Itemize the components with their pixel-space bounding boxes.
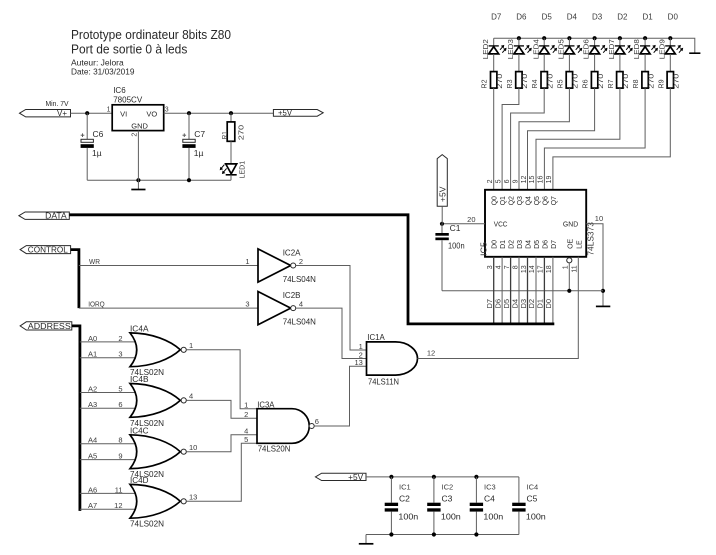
svg-text:74LS373: 74LS373 <box>586 222 596 256</box>
svg-text:R1: R1 <box>220 131 229 139</box>
svg-text:IC1: IC1 <box>399 483 411 492</box>
svg-text:1: 1 <box>107 106 111 113</box>
svg-text:D0: D0 <box>668 13 679 22</box>
svg-text:Prototype ordinateur 8bits Z80: Prototype ordinateur 8bits Z80 <box>71 27 231 42</box>
svg-text:VI: VI <box>120 110 127 119</box>
resistor R5 270 <box>555 72 579 89</box>
svg-text:11: 11 <box>572 265 579 272</box>
svg-text:100n: 100n <box>448 241 465 251</box>
svg-text:D7: D7 <box>551 240 558 249</box>
capacitor C1 100n <box>435 223 464 291</box>
junction C7 bottom <box>187 178 191 182</box>
svg-text:6: 6 <box>504 179 511 183</box>
svg-text:270: 270 <box>236 125 245 141</box>
wire A1 <box>80 357 137 359</box>
svg-text:5: 5 <box>495 179 502 183</box>
resistor R7 270 <box>606 72 630 89</box>
wire R4 to latch pin <box>511 88 545 190</box>
svg-text:A1: A1 <box>88 350 97 359</box>
svg-text:C6: C6 <box>93 129 104 139</box>
svg-text:1: 1 <box>244 400 248 409</box>
supply flag V+ with Min. 7V label <box>20 99 71 118</box>
svg-text:LED2: LED2 <box>483 39 490 59</box>
junction ground rail <box>432 532 436 536</box>
wire latch D5 pin to data bus <box>535 257 537 324</box>
svg-text:R6: R6 <box>581 80 590 89</box>
svg-text:74LS11N: 74LS11N <box>368 376 399 386</box>
svg-text:12: 12 <box>521 176 528 184</box>
latch IC5 74LS373 <box>478 190 595 257</box>
svg-text:D6: D6 <box>516 13 527 22</box>
svg-text:6: 6 <box>315 417 319 426</box>
pin numbers IC4D <box>114 485 197 510</box>
wire IC4A out to IC3A <box>186 350 257 409</box>
svg-text:19: 19 <box>546 176 553 184</box>
resistor R8 270 <box>631 72 655 89</box>
capacitor C3 100n (IC2) <box>427 477 461 535</box>
svg-text:IC4: IC4 <box>527 483 539 492</box>
svg-text:OE: OE <box>567 238 574 248</box>
svg-text:LED8: LED8 <box>634 39 641 59</box>
svg-text:C5: C5 <box>527 493 538 503</box>
svg-text:1: 1 <box>563 265 570 269</box>
NAND gate IC3A 74LS20N <box>257 399 314 453</box>
wire IC4C out to IC3A <box>186 435 257 452</box>
svg-text:9: 9 <box>118 452 122 461</box>
junction ground rail <box>474 532 478 536</box>
svg-text:100n: 100n <box>483 511 503 521</box>
wire 7805 GND pin <box>137 131 139 181</box>
LED8 <box>634 38 658 71</box>
svg-text:LE: LE <box>576 240 583 249</box>
LED7 <box>609 38 633 71</box>
wire +5V rail (decoupling) <box>366 476 519 478</box>
svg-text:2: 2 <box>487 179 494 183</box>
svg-text:9: 9 <box>512 179 519 183</box>
bus flag CONTROL <box>20 246 71 255</box>
svg-text:7: 7 <box>504 265 511 269</box>
wire latch D6 pin to data bus <box>543 257 545 324</box>
svg-text:3: 3 <box>165 106 169 113</box>
LED3 <box>508 38 532 71</box>
svg-text:Q1: Q1 <box>500 196 507 205</box>
svg-text:270: 270 <box>497 74 504 89</box>
svg-text:Q5: Q5 <box>534 196 541 205</box>
svg-text:R3: R3 <box>505 80 514 89</box>
svg-text:Q4: Q4 <box>526 196 533 205</box>
svg-text:C7: C7 <box>194 129 205 139</box>
svg-text:R2: R2 <box>480 80 489 89</box>
wire latch D1 pin to data bus <box>501 257 503 324</box>
svg-text:74LS02N: 74LS02N <box>130 519 164 529</box>
svg-text:2: 2 <box>132 133 139 137</box>
svg-text:8: 8 <box>118 436 122 445</box>
NOR gate IC4B 74LS02N <box>130 374 186 428</box>
junction ground rail <box>389 532 393 536</box>
AND gate IC1A 74LS11N <box>367 332 418 386</box>
junction LED9 rail <box>668 36 672 40</box>
svg-text:1µ: 1µ <box>194 148 204 158</box>
svg-text:20: 20 <box>467 215 475 224</box>
junction LED7 rail <box>618 36 622 40</box>
svg-text:LED6: LED6 <box>584 39 591 59</box>
svg-text:D2: D2 <box>509 240 516 249</box>
svg-text:A5: A5 <box>88 452 97 461</box>
svg-text:10: 10 <box>595 214 603 223</box>
wire ground rail (decoupling) <box>366 534 519 536</box>
svg-text:6: 6 <box>118 400 122 409</box>
svg-text:LED7: LED7 <box>609 39 616 59</box>
svg-text:270: 270 <box>573 74 580 89</box>
svg-text:D1: D1 <box>500 240 507 249</box>
regulator IC6 7805CV <box>112 86 164 131</box>
svg-text:D3: D3 <box>517 240 524 249</box>
svg-text:R8: R8 <box>631 80 640 89</box>
svg-text:WR: WR <box>89 257 101 266</box>
resistor R9 270 <box>656 72 680 89</box>
svg-text:5: 5 <box>244 435 248 444</box>
svg-text:12: 12 <box>114 501 122 510</box>
resistor R6 270 <box>581 72 605 89</box>
svg-text:IC4B: IC4B <box>130 374 149 384</box>
junction LED5 rail <box>567 36 571 40</box>
svg-text:D3: D3 <box>592 13 603 22</box>
junction LED6 rail <box>593 36 597 40</box>
wire LED cathode rail <box>494 38 695 53</box>
svg-text:270: 270 <box>598 74 605 89</box>
NOR gate IC4D 74LS02N <box>130 475 186 529</box>
wire ADDRESS bus (thick) <box>72 326 80 511</box>
svg-text:C4: C4 <box>484 493 495 503</box>
svg-text:D0: D0 <box>492 240 499 249</box>
svg-text:1µ: 1µ <box>92 148 102 158</box>
svg-text:13: 13 <box>354 358 362 367</box>
wire OE to ground rail <box>568 263 570 291</box>
net labels D7..D0 (bus taps) <box>485 299 553 309</box>
svg-text:74LS20N: 74LS20N <box>258 443 291 453</box>
svg-text:DATA: DATA <box>45 212 67 221</box>
svg-text:D4: D4 <box>567 13 578 22</box>
wire R8 to latch pin <box>544 88 645 190</box>
svg-text:13: 13 <box>521 265 528 273</box>
svg-text:C3: C3 <box>442 493 453 503</box>
wire R2 to pin 2 <box>493 88 495 190</box>
resistor R3 270 <box>505 72 529 89</box>
svg-text:R5: R5 <box>555 80 564 89</box>
svg-text:16: 16 <box>538 176 545 184</box>
pin numbers IC4A <box>118 334 193 359</box>
svg-text:D2: D2 <box>617 13 628 22</box>
wire R3 to latch pin <box>502 88 519 190</box>
wire latch D7 pin to data bus <box>552 257 554 324</box>
svg-text:1: 1 <box>189 341 193 350</box>
svg-text:VO: VO <box>146 110 157 119</box>
svg-text:270: 270 <box>674 74 681 89</box>
wire IC4D out to IC3A <box>186 443 257 501</box>
svg-text:4: 4 <box>299 300 303 309</box>
ground symbol (LED rail) <box>689 52 700 54</box>
wire latch D4 pin to data bus <box>527 257 529 324</box>
svg-text:100n: 100n <box>441 511 461 521</box>
wire IORQ <box>79 307 258 309</box>
svg-text:8: 8 <box>512 265 519 269</box>
wire latch D2 pin to data bus <box>510 257 512 324</box>
wire R6 to latch pin <box>528 88 595 190</box>
wire A7 <box>80 508 137 510</box>
svg-text:4: 4 <box>189 392 193 401</box>
resistor R2 270 <box>480 72 504 89</box>
svg-text:3: 3 <box>118 350 122 359</box>
svg-text:IC3A: IC3A <box>257 399 275 409</box>
svg-text:74LS04N: 74LS04N <box>283 317 316 327</box>
wire latch D3 pin to data bus <box>518 257 520 324</box>
supply flag +5V (vertical) <box>437 155 447 224</box>
svg-text:D1: D1 <box>642 13 653 22</box>
svg-text:IC3: IC3 <box>484 483 496 492</box>
junction rail <box>432 475 436 479</box>
svg-text:IC2B: IC2B <box>283 290 301 300</box>
inverter IC2A 74LS04N <box>245 247 316 284</box>
svg-text:11: 11 <box>115 485 123 494</box>
svg-text:CONTROL: CONTROL <box>28 246 69 255</box>
wire DATA bus (thick) <box>69 215 554 324</box>
svg-text:2: 2 <box>118 334 122 343</box>
junction OE rail / GND <box>601 289 605 293</box>
svg-text:D0: D0 <box>544 299 553 309</box>
wire IC1A out (pin12) to latch LE (pin11) <box>418 257 579 359</box>
capacitor C2 100n (IC1) <box>385 477 419 535</box>
bus flag DATA <box>19 212 69 221</box>
junction rail <box>474 475 478 479</box>
node junction C7 <box>187 111 191 115</box>
svg-text:270: 270 <box>548 74 555 89</box>
svg-text:LED5: LED5 <box>559 39 566 59</box>
svg-text:GND: GND <box>563 222 578 229</box>
svg-text:VCC: VCC <box>494 222 508 229</box>
svg-text:12: 12 <box>427 349 435 358</box>
wire IC2B out to IC1A pin2 <box>296 308 367 358</box>
svg-text:A4: A4 <box>88 436 97 445</box>
net labels D7..D0 <box>491 13 678 22</box>
svg-text:Q7: Q7 <box>551 196 558 205</box>
svg-text:IC2A: IC2A <box>283 247 301 257</box>
wire IC3A out to IC1A pin13 <box>314 366 366 426</box>
NOR gate IC4C 74LS02N <box>130 426 186 480</box>
svg-text:A7: A7 <box>88 501 97 510</box>
svg-text:D5: D5 <box>542 13 553 22</box>
svg-text:Q3: Q3 <box>517 196 524 205</box>
supply flag +5V (bottom) <box>315 473 366 482</box>
capacitor C4 100n (IC3) <box>470 477 504 535</box>
svg-text:18: 18 <box>546 265 553 273</box>
ground symbol (decoupling) <box>359 535 374 544</box>
capacitor C5 100n (IC4) <box>512 477 546 535</box>
svg-text:270: 270 <box>623 74 630 89</box>
svg-text:2: 2 <box>244 410 248 419</box>
svg-text:LED9: LED9 <box>659 39 666 59</box>
pin numbers IC6: 1 3 2 <box>107 106 169 136</box>
svg-text:Min. 7V: Min. 7V <box>46 99 69 108</box>
wire ground rail (regulator) <box>87 179 231 181</box>
svg-text:100n: 100n <box>526 511 546 521</box>
svg-text:15: 15 <box>529 176 536 184</box>
svg-text:4: 4 <box>495 265 502 269</box>
wire VCC pin 20 <box>442 223 485 225</box>
title text <box>71 27 231 76</box>
OE pin bubble <box>567 258 572 263</box>
pin numbers IC4B <box>118 384 193 409</box>
wire R7 to latch pin <box>536 88 620 190</box>
svg-text:+5V: +5V <box>348 473 364 482</box>
ground symbol (regulator) <box>131 180 145 189</box>
svg-text:Q0: Q0 <box>492 196 499 205</box>
LED6 <box>584 38 608 71</box>
svg-text:D4: D4 <box>526 240 533 249</box>
svg-text:100n: 100n <box>398 511 418 521</box>
wire A4 <box>80 443 137 445</box>
wire CONTROL bus (thick) <box>71 250 79 309</box>
junction OE <box>567 289 571 293</box>
junction LED8 rail <box>643 36 647 40</box>
supply flag +5V (right) <box>273 109 323 118</box>
resistor R4 270 <box>530 72 554 89</box>
svg-text:270: 270 <box>522 74 529 89</box>
node junction R1 <box>229 111 233 115</box>
wire IC4B out to IC3A <box>186 400 257 418</box>
junction rail <box>389 475 393 479</box>
svg-text:Port de sortie 0 à leds: Port de sortie 0 à leds <box>71 42 188 57</box>
bus flag ADDRESS <box>20 322 72 331</box>
svg-text:Date: 31/03/2019: Date: 31/03/2019 <box>71 67 135 77</box>
capacitor C6 1µ <box>81 113 104 180</box>
svg-text:IORQ: IORQ <box>88 300 105 309</box>
junction LED4 rail <box>542 36 546 40</box>
svg-text:Q6: Q6 <box>542 196 549 205</box>
svg-text:5: 5 <box>118 384 122 393</box>
wire GND pin 10 <box>586 224 603 306</box>
svg-text:V+: V+ <box>57 109 67 118</box>
LED2 <box>483 38 507 71</box>
wire R9 to latch pin <box>553 88 670 190</box>
LED4 <box>533 38 557 71</box>
svg-text:3: 3 <box>245 300 249 309</box>
svg-text:+5V: +5V <box>438 186 447 202</box>
svg-text:17: 17 <box>538 265 545 273</box>
inverter IC2B 74LS04N <box>245 290 316 327</box>
wire WR <box>79 265 258 267</box>
svg-text:IC5: IC5 <box>478 242 488 256</box>
svg-text:LED3: LED3 <box>508 39 515 59</box>
svg-text:1: 1 <box>245 257 249 266</box>
svg-text:ADDRESS: ADDRESS <box>28 322 71 331</box>
svg-text:74LS04N: 74LS04N <box>283 274 316 284</box>
pin numbers IC4C <box>118 436 197 461</box>
svg-text:IC1A: IC1A <box>367 332 385 342</box>
junction LED3 rail <box>517 36 521 40</box>
resistor R1 270 <box>220 113 246 141</box>
NOR gate IC4A 74LS02N <box>130 324 186 378</box>
svg-text:2: 2 <box>299 257 303 266</box>
wire A2 <box>80 392 137 394</box>
node junction +5V/C1 <box>440 222 444 226</box>
svg-text:A0: A0 <box>88 334 97 343</box>
svg-text:IC4A: IC4A <box>130 324 149 334</box>
capacitor C7 1µ <box>182 113 205 180</box>
svg-text:R4: R4 <box>530 80 539 89</box>
svg-text:GND: GND <box>131 121 148 130</box>
svg-text:D5: D5 <box>534 240 541 249</box>
wire A5 <box>80 459 137 461</box>
wire V+ to VI <box>71 112 113 114</box>
pin numbers IC1A 1,2,13,12 <box>354 342 435 367</box>
svg-text:D6: D6 <box>542 240 549 249</box>
svg-text:A3: A3 <box>88 400 97 409</box>
wire OE ground rail <box>442 290 603 292</box>
svg-text:IC4D: IC4D <box>130 475 149 485</box>
svg-text:LED4: LED4 <box>533 39 540 59</box>
svg-text:A6: A6 <box>88 485 97 494</box>
pin numbers IC5 bottom 3,4,7,8,13,14,17,18 <box>487 265 579 273</box>
svg-text:270: 270 <box>648 74 655 89</box>
svg-text:R7: R7 <box>606 80 615 89</box>
svg-text:3: 3 <box>487 265 494 269</box>
svg-text:C1: C1 <box>450 223 461 233</box>
svg-text:7805CV: 7805CV <box>113 94 142 104</box>
svg-text:Q2: Q2 <box>509 196 516 205</box>
svg-text:A2: A2 <box>88 384 97 393</box>
wire R5 to latch pin <box>519 88 569 190</box>
svg-text:14: 14 <box>529 265 536 273</box>
svg-text:IC4C: IC4C <box>130 426 149 436</box>
svg-text:LED1: LED1 <box>238 161 247 179</box>
wire A3 <box>80 407 137 409</box>
LED5 <box>559 38 583 71</box>
pin numbers IC5 top 2,5,6,9,12,15,16,19 <box>487 176 553 184</box>
ground symbol (latch) <box>596 305 610 307</box>
svg-text:R9: R9 <box>656 80 665 89</box>
svg-text:13: 13 <box>189 493 197 502</box>
wire IC2A out to IC1A pin1 <box>296 266 367 351</box>
wire A0 <box>80 341 137 343</box>
wire VO to +5V <box>164 112 274 114</box>
svg-text:D7: D7 <box>491 13 502 22</box>
junction GND pin <box>136 178 140 182</box>
node junction C6 <box>85 111 89 115</box>
svg-text:C2: C2 <box>399 493 410 503</box>
LED1 <box>220 141 247 180</box>
svg-text:+5V: +5V <box>278 109 293 118</box>
svg-text:IC2: IC2 <box>442 483 454 492</box>
wire A6 <box>80 492 137 494</box>
pin numbers IC3A 1,2,4,5,6 <box>244 400 319 444</box>
wire latch D0 pin to data bus <box>493 257 495 324</box>
LED9 <box>659 38 683 71</box>
svg-text:10: 10 <box>189 443 197 452</box>
